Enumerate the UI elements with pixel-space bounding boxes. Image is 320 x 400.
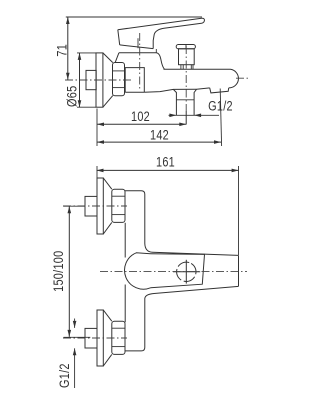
svg-text:142: 142 — [150, 127, 169, 143]
svg-text:G1/2: G1/2 — [57, 363, 73, 388]
svg-text:G1/2: G1/2 — [208, 98, 233, 114]
svg-text:161: 161 — [156, 154, 175, 170]
svg-text:150/100: 150/100 — [51, 251, 67, 292]
svg-text:71: 71 — [54, 44, 70, 57]
svg-text:Ø65: Ø65 — [64, 86, 80, 107]
svg-text:102: 102 — [131, 109, 150, 125]
